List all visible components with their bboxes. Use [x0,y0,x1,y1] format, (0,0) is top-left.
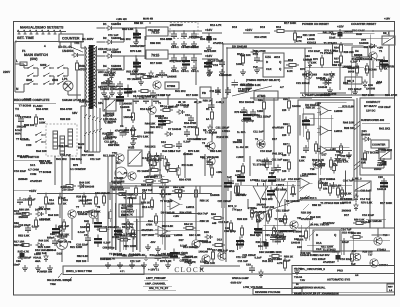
svg-text:7915: 7915 [151,54,159,58]
svg-text:R34 470R: R34 470R [179,211,191,214]
svg-text:T1 2T3413: T1 2T3413 [123,197,137,200]
svg-text:R16 8.2K: R16 8.2K [324,74,335,77]
svg-text:C11 1uF: C11 1uF [90,158,101,161]
svg-text:C10 22uF: C10 22uF [14,170,26,173]
svg-text:1L 43A 2K: 1L 43A 2K [236,146,249,149]
svg-text:100: 100 [282,170,287,173]
svg-text:2N5564: 2N5564 [326,178,336,181]
svg-text:T10: T10 [383,234,388,237]
svg-text:R41 2K2: R41 2K2 [56,158,67,161]
svg-text:R27: R27 [283,143,288,146]
svg-text:1N4001 1000mF/35V: 1N4001 1000mF/35V [100,88,125,91]
svg-text:1N4005: 1N4005 [342,66,352,69]
svg-text:C11 1uF: C11 1uF [196,138,207,141]
svg-text:1N4005: 1N4005 [112,67,122,71]
svg-text:R58 1K: R58 1K [58,241,67,244]
svg-text:C5 0.1: C5 0.1 [191,46,199,49]
svg-text:GA/100MS: GA/100MS [111,181,125,184]
svg-text:COM: COM [30,173,37,176]
svg-text:REF_VOLTAGE: REF_VOLTAGE [200,156,219,159]
svg-text:W1b: W1b [229,250,235,253]
svg-text:1N4005: 1N4005 [359,42,369,45]
svg-text:1N4148: 1N4148 [80,226,90,229]
svg-text:T1 2T3413: T1 2T3413 [324,42,338,45]
svg-text:C10 22uF: C10 22uF [260,150,272,153]
svg-text:R34 470R: R34 470R [381,65,394,69]
svg-text:R5? 510K: R5? 510K [112,189,124,192]
svg-text:C10 22uF: C10 22uF [18,224,30,227]
svg-text:22mF: 22mF [13,264,20,267]
svg-text:T7: T7 [76,206,80,209]
svg-text:CH3: CH3 [26,144,32,147]
svg-text:R52 5.6K: R52 5.6K [162,225,173,228]
svg-text:BN: BN [78,147,82,150]
svg-text:R16: R16 [288,59,293,62]
svg-text:LP1: LP1 [62,77,68,81]
svg-text:4.7: 4.7 [280,86,284,89]
svg-text:C10 22uF: C10 22uF [288,178,300,181]
svg-text:448: 448 [212,222,217,225]
svg-text:REV: REV [388,286,393,289]
svg-text:2N3643: 2N3643 [18,216,28,219]
svg-text:S/29D/17: S/29D/17 [238,90,249,93]
svg-text:2N011_U BOLT TRM: 2N011_U BOLT TRM [66,270,93,273]
svg-text:AMP_CHANNEL: AMP_CHANNEL [145,283,166,286]
svg-text:R58 1K: R58 1K [332,64,341,67]
svg-text:C21 220uF: C21 220uF [216,126,230,129]
svg-text:C14 7uF: C14 7uF [60,154,71,157]
svg-text:R34 470R: R34 470R [160,38,172,41]
svg-text:1N4148: 1N4148 [17,126,27,129]
svg-text:R28 100: R28 100 [76,196,87,199]
svg-text:R41 2K2: R41 2K2 [379,127,391,131]
svg-text:C14 7uF: C14 7uF [197,212,208,215]
svg-text:CLOCK: CLOCK [174,266,205,274]
svg-text:R34 470R: R34 470R [60,108,72,111]
svg-text:1N4148: 1N4148 [198,251,208,254]
svg-text:D13: D13 [256,220,261,223]
svg-text:R70 5.6K: R70 5.6K [234,111,245,114]
svg-text:+15V 4/C: +15V 4/C [116,18,127,21]
svg-text:L_RE_3: L_RE_3 [352,178,362,181]
svg-text:1N4005: 1N4005 [144,132,154,135]
svg-text:4/3 DW: 4/3 DW [294,268,303,271]
svg-text:47uF/16V: 47uF/16V [272,126,284,129]
svg-text:R34 470R: R34 470R [179,178,191,181]
svg-text:47uF/16V: 47uF/16V [146,176,158,179]
svg-text:C10 22uF: C10 22uF [106,49,118,52]
svg-text:R52 5.6K: R52 5.6K [210,150,221,153]
svg-text:R41 2K2: R41 2K2 [381,149,392,152]
svg-text:D17: D17 [320,178,325,181]
svg-text:D17: D17 [237,209,242,212]
svg-text:D13: D13 [183,105,188,108]
svg-text:R52 5.6K: R52 5.6K [122,28,133,31]
svg-text:12V DC: 12V DC [366,110,376,113]
svg-text:D1: D1 [103,22,107,26]
svg-text:0.1uF: 0.1uF [283,259,290,262]
svg-text:R28 100: R28 100 [362,251,373,254]
svg-text:C10 22uF: C10 22uF [62,188,74,191]
svg-text:R12 4.7K: R12 4.7K [104,258,115,261]
svg-text:+15V: +15V [384,18,390,21]
svg-text:T.RV: T.RV [300,279,305,282]
svg-text:R17 100K: R17 100K [82,154,94,157]
svg-text:R17 100K: R17 100K [88,210,100,213]
svg-text:+16V: +16V [205,54,213,58]
svg-text:LM339: LM339 [334,110,343,113]
svg-text:R34 470R: R34 470R [36,108,48,111]
svg-text:4013: 4013 [274,56,281,59]
svg-text:R70 5.6K: R70 5.6K [342,105,355,109]
svg-text:R17 100K: R17 100K [362,94,374,97]
svg-text:R28 100: R28 100 [334,202,345,205]
svg-text:C8 0.1: C8 0.1 [171,70,179,73]
svg-text:C10 22uF: C10 22uF [362,214,374,217]
svg-text:R52 5.6K: R52 5.6K [241,83,252,86]
svg-text:1N4148: 1N4148 [78,200,88,203]
svg-text:10A/25 R17.1: 10A/25 R17.1 [300,197,317,200]
svg-text:2N3643: 2N3643 [257,203,267,206]
svg-text:T17: T17 [368,254,373,257]
svg-text:R17 100K: R17 100K [142,234,154,237]
svg-text:1N4148: 1N4148 [318,86,328,89]
svg-text:8.2K: 8.2K [287,70,293,73]
svg-text:510R: 510R [297,239,303,242]
svg-text:B1 400V: B1 400V [82,37,93,41]
svg-text:R41 2K2: R41 2K2 [150,126,161,129]
svg-text:T1 2T3413: T1 2T3413 [18,116,32,119]
svg-text:1000mF/35V: 1000mF/35V [130,45,146,48]
svg-text:D: D [316,233,318,237]
svg-text:R53 510: R53 510 [159,186,169,189]
svg-text:T7 BC548: T7 BC548 [205,132,218,135]
svg-text:R70: R70 [300,68,305,71]
svg-text:T7 BC548: T7 BC548 [364,68,377,71]
svg-text:L: L [16,59,18,63]
svg-text:1N4005: 1N4005 [122,102,132,105]
svg-text:R26 220: R26 220 [60,118,71,121]
svg-text:R44 10K: R44 10K [48,214,59,217]
svg-text:C11 1uF: C11 1uF [210,90,221,93]
svg-text:R12 4.7K: R12 4.7K [121,213,132,216]
svg-text:(TIMING REPEAT SELECT): (TIMING REPEAT SELECT) [246,79,280,82]
svg-text:100K: 100K [39,122,46,125]
svg-text:R10 1N4148: R10 1N4148 [239,101,255,104]
svg-text:220: 220 [282,134,287,137]
svg-text:C21 220uF: C21 220uF [189,36,203,39]
svg-text:2N3643: 2N3643 [342,209,352,212]
svg-text:C14 7uF: C14 7uF [343,180,354,183]
svg-text:0.1uF: 0.1uF [342,241,349,244]
svg-text:0.1uF: 0.1uF [142,157,149,160]
svg-text:1N4148: 1N4148 [363,58,373,61]
svg-text:C7 1N4148: C7 1N4148 [168,128,182,131]
svg-text:R41 2K2: R41 2K2 [272,153,283,156]
svg-text:C21 220uF: C21 220uF [348,88,362,91]
svg-text:R44 10K: R44 10K [204,262,215,265]
svg-text:TR1: TR1 [74,41,80,45]
svg-text:C21 220uF: C21 220uF [276,209,290,212]
svg-text:+26V: +26V [216,171,222,174]
svg-text:CLK: CLK [316,248,322,251]
svg-text:R70 5.6K: R70 5.6K [130,50,141,53]
svg-text:1N4005: 1N4005 [233,141,243,144]
svg-text:+22V: +22V [245,28,253,32]
svg-text:R44 10K: R44 10K [145,122,156,125]
svg-text:C10 22uF: C10 22uF [210,59,222,62]
svg-text:1N4148: 1N4148 [127,91,137,94]
svg-text:PRO: PRO [337,270,343,273]
svg-text:C10 22uF: C10 22uF [378,105,391,109]
svg-text:R70 5.6K: R70 5.6K [137,135,148,138]
svg-text:1N4005: 1N4005 [184,256,194,259]
svg-text:R28 100: R28 100 [300,252,311,255]
svg-text:R70 5.6K: R70 5.6K [361,202,372,205]
svg-text:T1 2T3413: T1 2T3413 [253,163,267,166]
svg-text:C11 1uF: C11 1uF [130,260,141,263]
svg-text:R41 2K2: R41 2K2 [145,145,156,148]
svg-text:R44 10K: R44 10K [36,150,47,153]
svg-text:C10 22uF: C10 22uF [122,254,134,257]
svg-text:R70 5.6K: R70 5.6K [340,193,351,196]
svg-text:R6C 0.5R: R6C 0.5R [189,234,201,237]
svg-text:2N3643: 2N3643 [18,178,28,181]
svg-text:T7 BC548: T7 BC548 [324,93,337,96]
svg-text:R12: R12 [276,26,281,29]
svg-text:D9 1N4148: D9 1N4148 [161,212,175,215]
svg-text:WM_TO_TE_BT: WM_TO_TE_BT [149,287,169,290]
svg-text:C16: C16 [213,64,218,67]
svg-text:R21 120R: R21 120R [204,50,216,53]
svg-text:AC: AC [116,161,121,165]
svg-text:R41 2K2: R41 2K2 [323,31,334,34]
svg-text:R28 100: R28 100 [57,236,68,239]
svg-text:R58 5.0K: R58 5.0K [354,219,365,222]
svg-text:C11 1uF: C11 1uF [360,189,371,192]
svg-text:D94: D94 [258,245,263,248]
svg-text:COMPACT: COMPACT [366,100,380,104]
svg-text:R21 120R: R21 120R [38,246,50,249]
svg-text:R45: R45 [84,220,89,223]
svg-text:U2A: U2A [265,55,272,59]
svg-text:R12 4.7K: R12 4.7K [216,135,229,139]
svg-text:C11 1uF: C11 1uF [341,155,352,158]
svg-text:T1 2T3413: T1 2T3413 [274,218,288,221]
svg-text:C9: C9 [213,38,217,41]
svg-text:CLK: CLK [266,68,272,71]
svg-text:R41 2K2: R41 2K2 [175,90,186,93]
svg-text:+15V: +15V [29,189,37,193]
svg-text:-15V: -15V [150,241,156,244]
svg-text:R44 10K: R44 10K [162,150,173,153]
svg-text:5.6K: 5.6K [299,160,305,163]
svg-text:R23: R23 [236,170,241,173]
svg-text:C10 22uF: C10 22uF [148,29,160,32]
svg-text:C21 220uF: C21 220uF [102,226,116,229]
svg-text:C14: C14 [253,53,258,56]
svg-text:D9 1N4148: D9 1N4148 [164,106,178,109]
svg-text:R58 1K: R58 1K [141,202,150,205]
svg-text:R28 100: R28 100 [344,126,355,130]
svg-text:FB: FB [202,91,206,95]
svg-text:R12 4.7K: R12 4.7K [18,251,29,254]
svg-text:R56 510: R56 510 [158,117,168,120]
svg-text:C11 1uF: C11 1uF [238,260,249,263]
svg-text:WWA14 /AMP: WWA14 /AMP [232,277,249,280]
svg-text:T1: T1 [379,50,383,53]
svg-text:R4: R4 [127,109,131,112]
svg-text:1N4004: 1N4004 [62,49,74,53]
svg-text:470R: 470R [146,224,152,227]
svg-text:C21 220uF: C21 220uF [296,82,310,85]
svg-text:1N4005: 1N4005 [366,88,376,91]
svg-text:COUNTER: COUNTER [62,37,80,41]
svg-text:45_20: 45_20 [194,101,202,104]
svg-text:COUNTER RESET: COUNTER RESET [351,22,376,26]
svg-text:0.1uF: 0.1uF [305,59,312,62]
svg-text:R44 10K: R44 10K [38,240,49,243]
svg-text:D17: D17 [272,138,277,141]
svg-text:C21 220uF: C21 220uF [242,254,256,257]
svg-text:R17 100K: R17 100K [150,62,162,65]
svg-text:R16 8.2K: R16 8.2K [140,108,151,111]
svg-text:U4: U4 [355,49,359,53]
svg-text:R34 470R: R34 470R [184,122,196,125]
svg-text:R21 120R: R21 120R [124,245,136,248]
svg-text:C10 22uF: C10 22uF [340,258,352,261]
svg-text:D4: D4 [103,64,107,68]
svg-text:1N4148: 1N4148 [78,213,88,216]
svg-text:C11 1uF: C11 1uF [108,34,119,37]
svg-text:LM311: LM311 [334,130,343,133]
svg-text:R54 1.1M: R54 1.1M [173,186,184,189]
svg-text:4 45_2: 4 45_2 [216,101,225,104]
svg-text:47uF/16V: 47uF/16V [30,180,42,183]
svg-text:18V: 18V [98,101,103,105]
svg-text:304 /LEVEL SENSE: 304 /LEVEL SENSE [47,279,72,282]
svg-text:POWER ON RESET: POWER ON RESET [302,22,329,26]
svg-text:R70 5.6K: R70 5.6K [147,76,158,79]
svg-text:1N4148: 1N4148 [292,105,301,108]
svg-text:R28 100: R28 100 [301,211,312,214]
svg-text:600V: 600V [15,133,22,136]
svg-text:R1: R1 [206,108,210,111]
svg-text:F1: F1 [22,49,26,53]
svg-text:47uF/16V: 47uF/16V [323,261,335,264]
svg-text:C11 1uF: C11 1uF [253,131,264,134]
svg-text:R52 5.6K: R52 5.6K [108,144,119,147]
svg-text:R59 330: R59 330 [351,232,361,235]
svg-text:R70 5.6K: R70 5.6K [324,50,335,53]
svg-text:D17: D17 [321,152,327,156]
svg-text:C11 1uF: C11 1uF [363,46,374,49]
svg-text:GN3: GN3 [52,78,58,82]
svg-text:T7 BC548: T7 BC548 [39,171,52,174]
svg-text:0.39R: 0.39R [85,203,92,206]
svg-text:C10: C10 [185,114,190,117]
svg-text:R12 4.7K: R12 4.7K [210,24,221,27]
svg-text:10:1: 10:1 [30,164,36,167]
svg-text:R70 5.6K: R70 5.6K [182,164,193,167]
svg-text:R26 220: R26 220 [160,235,171,238]
svg-text:R44: R44 [211,213,216,216]
svg-text:T1 2T3413: T1 2T3413 [323,248,337,251]
svg-text:D13: D13 [343,81,349,85]
svg-text:0.1uF: 0.1uF [59,197,66,200]
svg-text:C21: C21 [377,164,382,167]
svg-text:LEFT_PREAMP: LEFT_PREAMP [146,277,166,280]
svg-text:1N4003: 1N4003 [111,22,121,26]
svg-text:R58 1K: R58 1K [284,256,293,259]
svg-text:SET. TIME: SET. TIME [17,36,35,40]
svg-text:R34 470R: R34 470R [385,94,397,97]
svg-text:D9 1N4148: D9 1N4148 [286,200,300,203]
svg-text:R25: R25 [283,98,288,101]
svg-text:R56 10R: R56 10R [19,209,29,212]
svg-text:R21: R21 [258,99,263,102]
svg-text:C10 22uF: C10 22uF [124,129,136,132]
svg-text:C21 220uF: C21 220uF [18,256,32,259]
svg-text:C21 5uF 50V: C21 5uF 50V [314,254,330,257]
svg-text:22uF: 22uF [329,37,336,40]
svg-text:MAN 4B: MAN 4B [143,18,153,21]
svg-text:T7 BC548: T7 BC548 [160,200,173,203]
svg-text:0.1 OHM/1W: 0.1 OHM/1W [70,168,86,171]
svg-text:4.7K: 4.7K [296,40,302,43]
svg-text:SPL_CIRCUIT/4N_5: SPL_CIRCUIT/4N_5 [300,268,325,271]
svg-text:C11 1uF: C11 1uF [275,178,286,181]
svg-text:VD 1N4007: VD 1N4007 [137,170,151,173]
svg-text:15k: 15k [323,188,328,191]
svg-text:R28: R28 [283,159,288,162]
svg-text:D17: D17 [344,214,349,217]
svg-text:1N4005: 1N4005 [343,30,353,33]
svg-text:+16V: +16V [205,28,213,32]
svg-text:R17 100K: R17 100K [186,94,198,97]
svg-text:(SW): (SW) [30,57,38,61]
svg-text:R28 100: R28 100 [141,184,152,187]
svg-text:R26 220: R26 220 [237,218,248,221]
svg-text:0.1uF: 0.1uF [180,245,187,248]
svg-text:1N4148: 1N4148 [291,242,301,245]
svg-text:RECHARGE COMPLETE: RECHARGE COMPLETE [14,98,49,102]
svg-text:C10 22uF: C10 22uF [255,180,267,183]
svg-text:T17: T17 [352,250,357,253]
svg-text:R17 100K: R17 100K [169,60,181,63]
svg-text:0.1uF: 0.1uF [350,59,358,63]
svg-text:C11 1uF: C11 1uF [104,141,115,144]
svg-text:1N4005: 1N4005 [120,106,130,109]
svg-text:R41 2K2: R41 2K2 [262,260,273,263]
svg-text:+R22+: +R22+ [222,130,231,133]
svg-text:R44 10K: R44 10K [240,54,251,57]
svg-text:220uF: 220uF [374,168,382,171]
svg-text:KT558: KT558 [167,85,176,88]
svg-text:47uF/16V: 47uF/16V [301,218,313,221]
svg-text:-10/2-12V: -10/2-12V [230,282,242,285]
svg-text:18V: 18V [72,111,78,115]
svg-text:T13.04: T13.04 [294,276,303,279]
svg-text:SUBWOOFER 400: SUBWOOFER 400 [361,119,385,122]
svg-text:R58 1K: R58 1K [200,199,209,202]
svg-text:9-2: 9-2 [84,150,88,153]
svg-text:R26 220: R26 220 [343,51,354,54]
svg-text:47uF/16V: 47uF/16V [274,236,286,239]
svg-text:C23: C23 [246,264,251,267]
svg-text:R17 100K: R17 100K [103,155,115,158]
svg-text:T7 BC548: T7 BC548 [16,138,29,141]
